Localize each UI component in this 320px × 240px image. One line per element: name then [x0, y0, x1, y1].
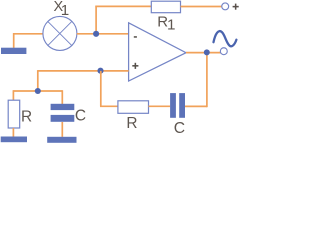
- wire: R to ground: [12, 128, 14, 137]
- resistor R (series): [118, 101, 149, 114]
- wire: C to ground: [61, 122, 63, 137]
- svg-text:R: R: [21, 108, 32, 125]
- svg-text:1: 1: [61, 2, 69, 19]
- capacitor C (series) bar 1: [170, 93, 176, 118]
- node dot: output: [204, 49, 210, 55]
- wire: down to ground G1: [13, 33, 15, 48]
- ground bar G3: [47, 137, 76, 143]
- node dot: inverting junction: [93, 31, 99, 37]
- capacitor C (series) bar 2: [179, 93, 185, 118]
- capacitor C (parallel) plate 1: [51, 104, 75, 110]
- wire: left corner down: [37, 70, 39, 91]
- wire: to series R: [100, 105, 118, 107]
- wire: down to C (parallel): [61, 90, 63, 104]
- wire: series R to C: [149, 105, 171, 107]
- wire: lamp right to op-amp inverting input: [77, 33, 129, 35]
- wire: non-inverting input horizontal: [38, 70, 129, 72]
- label + (top right): [233, 4, 239, 10]
- resistor R1: [151, 1, 180, 13]
- wire: bottom-left horizontal: [13, 90, 62, 92]
- node dot: plus input junction: [97, 68, 103, 74]
- op-amp minus: [134, 36, 137, 38]
- wire: op-amp output: [186, 52, 221, 54]
- wire: junction down to series RC: [100, 71, 102, 106]
- ground bar G2: [1, 137, 27, 143]
- wire: R1 to plus terminal: [181, 6, 222, 8]
- wire: riser up to output node: [206, 53, 208, 108]
- wire: top horizontal to R1: [95, 5, 151, 7]
- lamp X1: [43, 16, 77, 50]
- resistor R (parallel, vertical): [8, 100, 20, 128]
- ground bar G1: [1, 48, 26, 54]
- svg-text:1: 1: [167, 17, 175, 34]
- svg-text:C: C: [174, 120, 185, 137]
- svg-text:R: R: [126, 115, 137, 132]
- terminal T2: [220, 48, 227, 55]
- wire: lamp left horizontal: [14, 33, 43, 35]
- node dot: RC parallel junction: [35, 88, 41, 94]
- op-amp U1: [129, 23, 186, 81]
- capacitor C (parallel) plate 2: [51, 115, 75, 122]
- wire: junction up: [95, 6, 97, 34]
- op-amp plus: [132, 63, 138, 69]
- wire: series C to output riser: [185, 105, 207, 107]
- wire: down to R (parallel): [12, 90, 14, 100]
- svg-text:C: C: [75, 108, 86, 125]
- sine symbol: [214, 31, 237, 46]
- terminal T1: [222, 3, 229, 10]
